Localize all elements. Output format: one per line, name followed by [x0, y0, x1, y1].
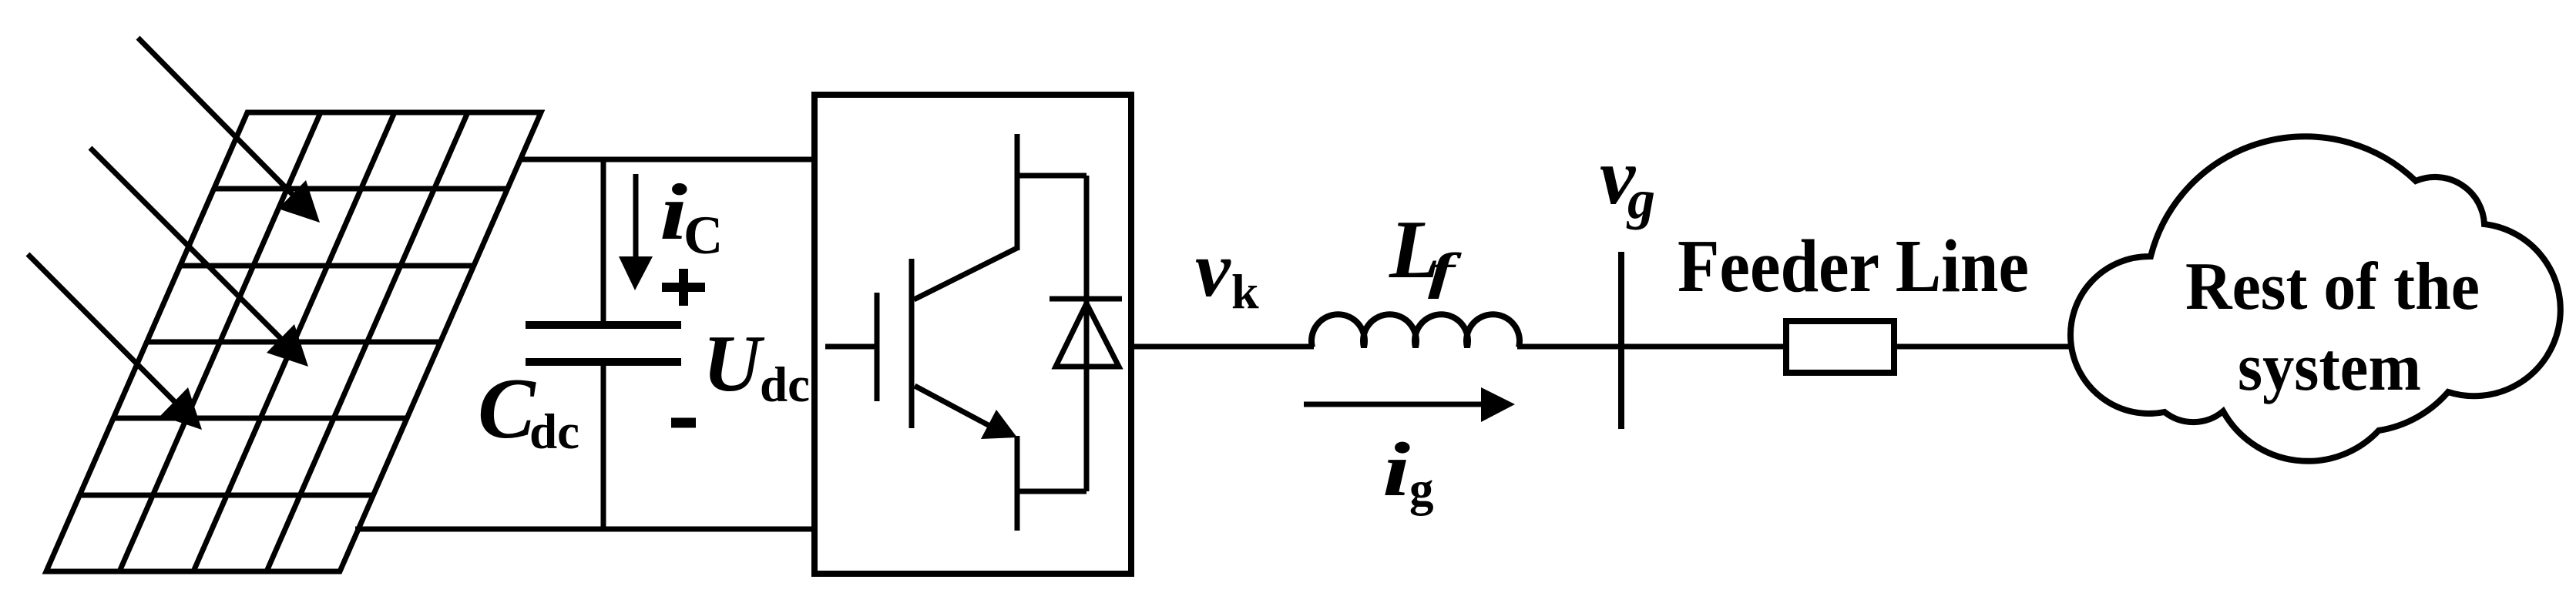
PV grid column line 2: [193, 112, 395, 571]
diode branch vertical wire: [1084, 176, 1090, 491]
PV grid row line 3: [147, 340, 441, 345]
label iC: [660, 168, 723, 266]
sun ray arrow 1: [138, 38, 320, 223]
label ig: [1382, 427, 1434, 516]
PV array panel outline: [46, 112, 541, 571]
wire: inverter output to inductor: [1131, 344, 1314, 350]
PV grid row line 1: [214, 186, 508, 192]
cloud: rest of the system: [2071, 136, 2561, 461]
IGBT body bar: [909, 259, 915, 428]
svg-text:g: g: [1626, 169, 1655, 230]
wire: capacitor branch lower: [601, 362, 606, 531]
feeder line impedance box: [1786, 321, 1894, 373]
svg-text:Rest of the: Rest of the: [2185, 250, 2480, 324]
capacitor Cdc lower plate: [526, 358, 681, 366]
IGBT emitter diagonal with arrow: [915, 386, 1017, 439]
label vk: [1195, 226, 1259, 319]
svg-text:dc: dc: [529, 404, 579, 460]
node vg bus bar: [1618, 252, 1624, 429]
svg-text:C: C: [683, 206, 723, 266]
svg-text:v: v: [1195, 226, 1231, 313]
capacitor Cdc upper plate: [526, 321, 681, 329]
PV grid column line 3: [267, 112, 468, 571]
IGBT emitter lead: [1015, 436, 1020, 531]
diode cathode bar: [1050, 296, 1122, 302]
wire: inductor to feeder resistor: [1517, 344, 1783, 350]
PV grid row line 5: [80, 493, 374, 498]
wire: PV negative to inverter (bottom DC bus): [355, 527, 814, 532]
wire: feeder resistor to cloud: [1894, 344, 2081, 350]
current arrow ig: [1304, 387, 1515, 422]
wire: capacitor branch upper: [601, 157, 606, 325]
PV grid column line 1: [119, 112, 321, 571]
IGBT collector lead: [1015, 134, 1020, 250]
IGBT gate lead: [825, 344, 877, 350]
PV grid row line 4: [113, 416, 407, 421]
wire: PV positive to inverter (top DC bus): [522, 157, 814, 162]
IGBT collector diagonal: [914, 248, 1017, 300]
minus sign: [671, 418, 696, 428]
wire: collector to diode top: [1015, 173, 1086, 179]
current arrow iC: [619, 174, 653, 290]
wire: emitter to diode bottom: [1015, 489, 1086, 494]
svg-text:g: g: [1409, 462, 1434, 516]
svg-text:system: system: [2238, 330, 2421, 405]
sun ray arrow 3: [28, 254, 202, 430]
svg-text:i: i: [1382, 427, 1410, 512]
svg-text:Feeder Line: Feeder Line: [1678, 225, 2029, 307]
svg-text:C: C: [478, 361, 536, 457]
label Lf: [1389, 204, 1462, 300]
diode triangle: [1056, 303, 1119, 367]
inverter box U1: [814, 95, 1131, 574]
svg-text:f: f: [1428, 243, 1462, 300]
plus sign: [662, 269, 705, 306]
label Cdc: [478, 361, 579, 460]
label Udc: [703, 318, 810, 413]
label vg: [1600, 132, 1655, 230]
svg-text:k: k: [1231, 264, 1259, 319]
svg-text:dc: dc: [760, 357, 810, 413]
inductor Lf: [1312, 314, 1520, 347]
svg-text:U: U: [703, 318, 765, 408]
IGBT gate bar: [875, 293, 880, 401]
sun ray arrow 2: [90, 148, 308, 367]
PV grid row line 2: [180, 263, 474, 269]
